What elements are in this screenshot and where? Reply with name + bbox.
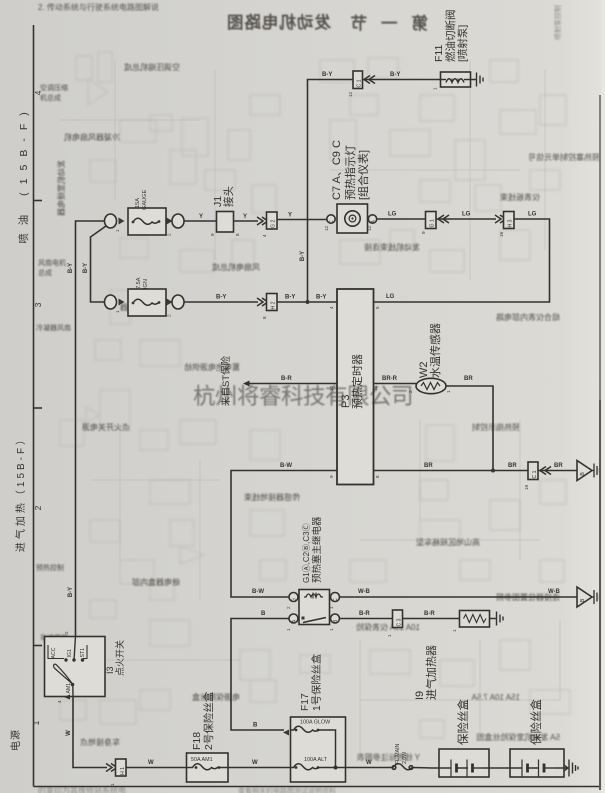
faint reverse-side shapes <box>76 56 92 80</box>
svg-text:喷射泵控制: 喷射泵控制 <box>553 5 562 40</box>
connector C3 pin1 <box>387 610 403 637</box>
svg-text:预热塞主继电器: 预热塞主继电器 <box>311 516 323 583</box>
ignition switch I3 点火开关 <box>45 631 126 703</box>
svg-text:IG1: IG1 <box>67 649 73 657</box>
arrow into H3 <box>495 215 506 223</box>
svg-text:F11: F11 <box>433 45 445 62</box>
svg-text:2. 传动系统与行驶系统电路图解说: 2. 传动系统与行驶系统电路图解说 <box>38 2 159 12</box>
svg-text:仪表板线束: 仪表板线束 <box>500 192 540 202</box>
svg-text:组合仪表内部电路: 组合仪表内部电路 <box>496 312 560 322</box>
svg-text:F18: F18 <box>191 732 203 750</box>
svg-text:AM1: AM1 <box>66 683 72 694</box>
section number 4 <box>33 90 43 95</box>
arrow into G2 <box>257 217 268 225</box>
svg-text:发动机线束连接: 发动机线束连接 <box>364 242 420 252</box>
svg-text:B-Y: B-Y <box>390 72 400 78</box>
wire BR C1 to ground triangle B <box>539 463 578 471</box>
wire W F18 to F17 <box>228 760 291 768</box>
svg-text:3: 3 <box>33 302 43 307</box>
svg-text:1: 1 <box>329 606 334 609</box>
svg-text:9: 9 <box>329 475 334 478</box>
svg-text:F17: F17 <box>300 693 311 711</box>
svg-text:[组合仪表]: [组合仪表] <box>356 150 370 200</box>
svg-text:点火开关: 点火开关 <box>114 640 125 676</box>
svg-text:100A ALT: 100A ALT <box>304 757 328 763</box>
svg-text:燃油切断阀: 燃油切断阀 <box>444 10 457 63</box>
svg-text:C: C <box>329 220 335 224</box>
svg-text:B: B <box>253 723 258 729</box>
svg-text:W: W <box>252 760 258 766</box>
wire B-Y fuse to H2 <box>185 295 259 303</box>
svg-text:总成: 总成 <box>38 268 52 277</box>
svg-text:ACC: ACC <box>51 647 57 658</box>
svg-text:电源保险丝盒: 电源保险丝盒 <box>192 692 240 702</box>
wire BR P3 pin8 to C1 <box>374 463 529 478</box>
svg-text:保险丝盒: 保险丝盒 <box>456 699 470 745</box>
wire B-Y H2 to P3 pin4 with junction <box>277 295 337 310</box>
svg-text:B: B <box>261 611 266 617</box>
page right margin light strip <box>602 0 605 793</box>
svg-text:B: B <box>580 472 586 476</box>
svg-text:12: 12 <box>324 225 329 231</box>
svg-text:接头: 接头 <box>222 186 235 207</box>
svg-text:B-R: B-R <box>359 611 370 617</box>
svg-text:4: 4 <box>57 700 62 703</box>
svg-text:2: 2 <box>64 631 69 634</box>
svg-text:预热指示控制: 预热指示控制 <box>472 422 520 432</box>
wire B-R C3 to I9 heater <box>403 611 460 632</box>
ground after battery <box>564 760 578 777</box>
svg-text:风扇电机: 风扇电机 <box>38 258 66 267</box>
svg-text:9: 9 <box>210 233 215 236</box>
svg-text:C7 A、C9 C: C7 A、C9 C <box>331 140 343 200</box>
svg-text:BR: BR <box>464 376 473 382</box>
fuse box F17 1号保险丝盒 (100A GLOW / 100A ALT) <box>291 653 346 782</box>
wire W F17 to FL MAIN <box>346 760 394 768</box>
svg-text:100A GLOW: 100A GLOW <box>300 720 331 726</box>
svg-text:B-Y: B-Y <box>322 72 332 78</box>
svg-text:2: 2 <box>33 505 43 510</box>
wire Y from fuse to J1 <box>185 214 217 221</box>
svg-text:1: 1 <box>387 634 392 637</box>
svg-text:19: 19 <box>524 484 529 490</box>
svg-text:G 2: G 2 <box>271 220 277 228</box>
svg-text:B-Y: B-Y <box>83 263 89 273</box>
arrow out of C1 mid <box>540 467 551 475</box>
svg-text:点火开关电源: 点火开关电源 <box>82 422 130 432</box>
connector G1 pin9 <box>421 212 436 235</box>
svg-text:预热控制: 预热控制 <box>36 563 64 572</box>
section number 2 <box>33 505 43 510</box>
svg-text:H 2: H 2 <box>271 301 277 309</box>
svg-text:ST1: ST1 <box>80 648 86 658</box>
section number 3 <box>33 302 43 307</box>
svg-text:7.5A: 7.5A <box>136 277 142 289</box>
svg-text:BR: BR <box>424 463 433 469</box>
svg-text:B-R: B-R <box>424 611 435 617</box>
svg-text:1: 1 <box>286 628 291 631</box>
svg-text:5A 发动机室保险丝盒图: 5A 发动机室保险丝盒图 <box>476 732 560 742</box>
svg-text:发动机室继电器: 发动机室继电器 <box>56 160 66 216</box>
diagram border (left frame line) <box>33 25 35 787</box>
fuse box F18 2号保险丝盒 (50A AM1) <box>187 691 229 782</box>
right page edge line <box>599 95 601 790</box>
svg-text:15A 10A 7.5A: 15A 10A 7.5A <box>471 693 520 702</box>
svg-text:预热塞控制单元信号: 预热塞控制单元信号 <box>528 152 600 162</box>
wire B-Y vertical junction up to C1 row <box>300 72 353 302</box>
svg-text:查看相关的电路图测试说明资料: 查看相关的电路图测试说明资料 <box>238 786 336 793</box>
svg-text:车身接地点: 车身接地点 <box>80 737 120 747</box>
fuel cut valve F11 燃油切断阀 <box>433 10 471 91</box>
svg-text:I9: I9 <box>414 691 426 700</box>
svg-text:2: 2 <box>167 233 172 236</box>
svg-text:1: 1 <box>446 390 451 393</box>
bottom margin smudges <box>38 785 336 793</box>
arrow out of C1 top <box>364 76 375 84</box>
svg-text:的复印为其维修站系统电: 的复印为其维修站系统电 <box>38 785 126 793</box>
svg-text:空调压缩: 空调压缩 <box>40 83 68 92</box>
svg-text:第一节: 第一节 <box>337 13 429 33</box>
svg-text:2号保险丝盒: 2号保险丝盒 <box>202 691 215 750</box>
svg-text:12: 12 <box>367 225 372 231</box>
connector C1 pin12 (top) <box>348 71 363 97</box>
svg-text:4: 4 <box>33 90 43 95</box>
wire B-R from ST fuse to P3 pin10 <box>243 376 337 391</box>
wire BR W2 down to ground row <box>446 376 493 471</box>
section label 喷油(15B-F) <box>17 104 30 244</box>
ground triangle A <box>577 587 600 607</box>
svg-text:H 3: H 3 <box>508 219 514 227</box>
svg-text:Y: Y <box>288 213 292 219</box>
svg-text:1号保险丝盒: 1号保险丝盒 <box>310 653 323 711</box>
svg-text:9: 9 <box>421 231 426 234</box>
junction J1 接头 <box>210 186 240 236</box>
svg-text:B-Y: B-Y <box>68 587 74 597</box>
label 来自ST保险 <box>220 355 232 406</box>
svg-text:I3: I3 <box>105 666 115 674</box>
wire BR-R P3 to W2 <box>373 376 416 393</box>
section tick y408 <box>34 407 43 409</box>
svg-text:W: W <box>148 760 154 766</box>
svg-text:5: 5 <box>375 306 380 309</box>
svg-text:1: 1 <box>31 720 41 725</box>
wire LG lamp to G1 <box>377 212 425 220</box>
svg-text:1: 1 <box>329 628 334 631</box>
svg-text:G: G <box>292 598 298 602</box>
svg-text:水温传感器: 水温传感器 <box>429 323 442 378</box>
svg-text:BR-R: BR-R <box>382 376 398 382</box>
svg-text:高山地区规格车型: 高山地区规格车型 <box>416 537 480 547</box>
svg-text:B-Y: B-Y <box>316 295 326 301</box>
svg-text:B-W: B-W <box>280 463 292 469</box>
svg-text:10A 15A 仪表保险: 10A 15A 仪表保险 <box>356 622 420 632</box>
battery box 1 保险丝盒 <box>433 699 489 777</box>
wire B-Y C1 to F11 <box>363 72 441 80</box>
svg-text:B: B <box>580 598 586 602</box>
intake heater I9 进气加热器 <box>414 611 490 701</box>
fuse 15A GAUGE <box>105 190 185 236</box>
svg-text:传感器接地线束: 传感器接地线束 <box>244 492 300 502</box>
svg-text:LG: LG <box>462 212 471 218</box>
bottom frame line <box>34 786 601 788</box>
glow plug main relay G1A C2B C3C 预热塞主继电器 <box>286 516 340 631</box>
svg-text:C 1: C 1 <box>357 79 363 87</box>
svg-text:喷油 (15B-F): 喷油 (15B-F) <box>17 104 30 244</box>
section tick y200 <box>34 200 43 202</box>
svg-text:继电器盒内部: 继电器盒内部 <box>132 577 180 587</box>
glow plug timer P3 预热定时器 <box>337 289 374 485</box>
svg-text:预热指示灯: 预热指示灯 <box>343 145 357 200</box>
connector H2 pin8 <box>262 294 277 320</box>
svg-text:W: W <box>366 760 372 766</box>
svg-text:LG: LG <box>386 294 395 300</box>
svg-text:Y: Y <box>243 214 247 220</box>
svg-text:发动机电路图: 发动机电路图 <box>226 12 332 32</box>
section tick y645 <box>34 645 43 647</box>
svg-text:GAUGE: GAUGE <box>142 190 148 210</box>
section number 1 <box>31 720 41 725</box>
svg-text:BR: BR <box>554 463 563 469</box>
svg-text:W: W <box>66 730 72 736</box>
svg-text:B-W: B-W <box>252 589 264 595</box>
svg-text:W-B: W-B <box>548 589 561 595</box>
svg-text:电源: 电源 <box>9 729 22 751</box>
svg-text:H 1: H 1 <box>120 767 126 775</box>
arrow out of G1 <box>438 215 449 223</box>
connector C1 pin19 (mid) <box>524 462 538 490</box>
svg-text:B-Y: B-Y <box>216 295 226 301</box>
wire Y from G2 to indicator <box>277 213 327 220</box>
ground at I9 <box>490 612 504 626</box>
svg-text:8: 8 <box>375 475 380 478</box>
svg-text:2: 2 <box>167 314 172 317</box>
svg-text:50A AM1: 50A AM1 <box>191 757 213 763</box>
svg-text:8: 8 <box>235 233 240 236</box>
wire B relay A down to fuse box F17 <box>231 611 289 736</box>
svg-text:进气加热器: 进气加热器 <box>424 645 438 700</box>
svg-text:2.0W: 2.0W <box>402 752 408 764</box>
connector G2 pin4 <box>262 212 277 237</box>
connector H1 pin1 <box>110 759 126 786</box>
svg-text:机总成: 机总成 <box>40 93 61 102</box>
svg-text:LG: LG <box>388 212 397 218</box>
battery box 2 保险丝盒 <box>489 699 564 777</box>
wire B-W P3 pin9 down to glow relay <box>231 463 337 597</box>
svg-text:G1Ⓐ,C2Ⓑ,C3Ⓒ: G1Ⓐ,C2Ⓑ,C3Ⓒ <box>302 523 311 583</box>
svg-text:风扇电机总成: 风扇电机总成 <box>212 262 260 272</box>
svg-text:15A: 15A <box>135 198 141 208</box>
fuse 7.5A IGN <box>105 277 185 317</box>
wire B-Y vertical from ignition switch IG1 up to fuse row <box>68 221 104 637</box>
svg-text:B-Y: B-Y <box>285 295 295 301</box>
svg-text:FL MAIN: FL MAIN <box>395 743 401 764</box>
svg-text:G 1: G 1 <box>430 219 436 227</box>
svg-text:B-R: B-R <box>281 376 292 382</box>
wire Y from J1 to G2 <box>234 214 259 221</box>
svg-text:1: 1 <box>115 229 120 232</box>
section label 电源 <box>9 729 22 751</box>
ground triangle B <box>577 461 600 481</box>
svg-text:B-Y: B-Y <box>300 251 306 261</box>
section label 进气加热(15B-F) <box>14 432 27 552</box>
svg-text:4: 4 <box>329 306 334 309</box>
svg-text:C 3: C 3 <box>397 618 403 626</box>
svg-text:C: C <box>333 598 339 602</box>
wire B-R relay B to C3 <box>340 611 393 619</box>
connector H3 pin16 <box>499 212 514 238</box>
svg-text:冷凝器风扇电机: 冷凝器风扇电机 <box>64 132 120 142</box>
svg-text:2: 2 <box>286 606 291 609</box>
arrow into H2 <box>257 298 268 306</box>
wire LG G1 to H3 <box>436 212 496 220</box>
svg-text:Y: Y <box>199 214 203 220</box>
wire W from AM1 down to H1 <box>66 697 107 768</box>
svg-text:4: 4 <box>262 234 267 237</box>
wire B-Y branch to IGN fuse <box>83 226 106 302</box>
water temp sensor W2 水温传感器 <box>416 323 451 394</box>
svg-text:1: 1 <box>452 629 457 632</box>
ground at F11 <box>471 73 484 87</box>
arrow into H1 <box>106 764 117 772</box>
svg-text:空调压缩机总成: 空调压缩机总成 <box>124 62 180 72</box>
svg-text:12: 12 <box>348 91 353 97</box>
svg-text:冷凝器风扇: 冷凝器风扇 <box>36 323 71 332</box>
mirrored print-through, decorative <box>38 2 562 40</box>
fusible link FL MAIN 2.0W <box>392 743 433 769</box>
svg-text:8: 8 <box>262 316 267 319</box>
svg-text:进气加热（15B-F）: 进气加热（15B-F） <box>14 432 27 552</box>
svg-text:16: 16 <box>499 231 504 237</box>
svg-text:1: 1 <box>433 87 438 90</box>
svg-text:1: 1 <box>115 310 120 313</box>
svg-text:C 1: C 1 <box>532 470 538 478</box>
svg-text:IGN: IGN <box>143 279 149 289</box>
svg-text:BR: BR <box>508 463 517 469</box>
svg-text:W2: W2 <box>418 362 430 379</box>
svg-text:B-Y: B-Y <box>68 263 74 273</box>
wire W-B relay C to ground triangle A <box>340 589 578 597</box>
svg-text:W-B: W-B <box>358 589 371 595</box>
svg-text:[喷射泵]: [喷射泵] <box>456 25 469 62</box>
svg-text:保险丝盒: 保险丝盒 <box>529 699 543 745</box>
wire W H1 to F18 <box>126 760 187 768</box>
glow indicator lamp C7A C9C 组合仪表 <box>324 140 377 233</box>
svg-text:LG: LG <box>528 212 537 218</box>
wire LG H3 to corner down to P3 pin5 <box>374 212 550 310</box>
svg-text:杭州将睿科技有限公司: 杭州将睿科技有限公司 <box>193 384 413 409</box>
